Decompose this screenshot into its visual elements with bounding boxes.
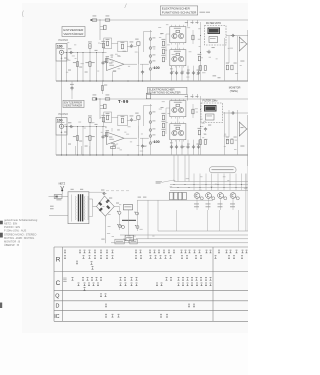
svg-text:R: R [56,256,61,263]
svg-text:F-20Hz (ON) : AUS: F-20Hz (ON) : AUS [4,229,26,233]
svg-text:D: D [56,304,60,310]
svg-text:FILTER 20Hz: FILTER 20Hz [203,100,219,103]
svg-text:(TAPE): (TAPE) [230,90,238,93]
svg-text:PHONO: PHONO [59,112,69,116]
svg-text:VERSTÄRKER: VERSTÄRKER [63,32,83,36]
svg-text:ÜBERSP. : B: ÜBERSP. : B [4,243,19,247]
svg-text:FILTER 20Hz: FILTER 20Hz [206,22,222,25]
svg-text:T-99: T-99 [118,99,129,104]
svg-text:NETZ : EIN: NETZ : EIN [4,222,17,226]
svg-text:100: 100 [154,140,160,144]
svg-text:C: C [56,280,61,287]
svg-text:MONITOR : B: MONITOR : B [4,240,20,244]
svg-text:NETZ: NETZ [59,183,66,186]
svg-text:PHONO : EIN: PHONO : EIN [4,225,20,229]
svg-text:ENTZERRER: ENTZERRER [63,28,83,32]
svg-text:IC: IC [54,314,59,320]
svg-text:STEREO-MONO : STEREO: STEREO-MONO : STEREO [4,232,36,236]
svg-text:gezeichnete Schalterstellung:: gezeichnete Schalterstellung: [4,218,38,222]
svg-text:PHONO: PHONO [59,38,69,42]
svg-text:Q: Q [55,294,59,300]
svg-text:VERSTÄRKER: VERSTÄRKER [64,105,82,108]
svg-text:100: 100 [57,118,63,122]
svg-text:MUTING -20dB : MUTING: MUTING -20dB : MUTING [4,236,34,240]
svg-text:100: 100 [57,44,63,48]
svg-text:FUNKTIONS-SCHALTER: FUNKTIONS-SCHALTER [149,92,181,95]
svg-text:ELEKTRONISCHER: ELEKTRONISCHER [162,7,190,11]
svg-text:100: 100 [154,66,160,70]
svg-text:FUNKTIONS-SCHALTER: FUNKTIONS-SCHALTER [162,11,197,15]
